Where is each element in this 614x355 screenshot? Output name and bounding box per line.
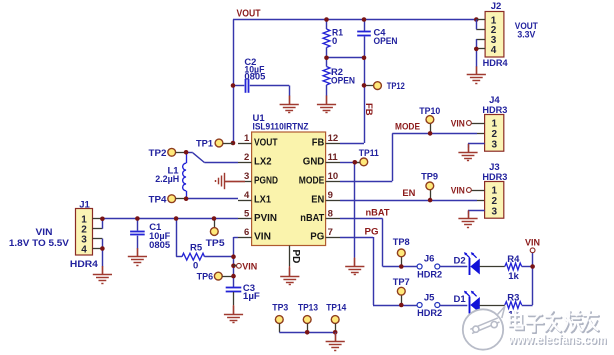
svg-text:J2: J2 [491,1,502,12]
svg-text:EN: EN [402,188,415,199]
svg-text:9: 9 [328,190,333,201]
svg-text:LX2: LX2 [254,156,272,167]
svg-text:D2: D2 [454,256,466,267]
svg-text:6: 6 [244,227,249,238]
svg-text:J6: J6 [424,254,435,265]
svg-text:4: 4 [81,244,87,255]
svg-text:TP13: TP13 [298,303,318,314]
svg-text:PG: PG [310,231,324,242]
svg-text:3: 3 [244,171,249,182]
svg-text:TP10: TP10 [419,106,440,117]
svg-text:1: 1 [492,119,498,130]
svg-text:HDR2: HDR2 [417,270,442,281]
svg-text:HDR4: HDR4 [483,58,509,69]
svg-text:PG: PG [365,226,379,237]
svg-text:VIN: VIN [254,231,271,242]
svg-text:VOUT: VOUT [237,8,261,19]
svg-text:EN: EN [311,194,324,205]
svg-text:LX1: LX1 [254,194,271,205]
svg-text:1: 1 [492,186,498,197]
svg-text:0: 0 [332,36,337,47]
svg-text:4: 4 [244,190,250,201]
svg-text:VIN: VIN [36,227,53,238]
svg-text:TP1: TP1 [196,139,214,150]
svg-text:0805: 0805 [149,240,170,250]
svg-text:TP4: TP4 [149,194,168,205]
svg-text:OPEN: OPEN [331,75,355,86]
svg-text:R4: R4 [507,254,520,265]
svg-text:12: 12 [328,133,339,144]
svg-text:MODE: MODE [299,175,325,186]
svg-text:HDR3: HDR3 [482,172,507,183]
svg-text:OPEN: OPEN [374,36,398,47]
svg-text:PVIN: PVIN [254,213,277,224]
svg-text:VIN: VIN [242,261,257,272]
svg-text:HDR2: HDR2 [417,308,442,319]
svg-text:2: 2 [244,152,249,163]
svg-text:3.3V: 3.3V [517,30,536,41]
svg-text:VOUT: VOUT [254,137,278,148]
svg-text:R5: R5 [190,242,203,253]
svg-text:1.8V TO 5.5V: 1.8V TO 5.5V [9,238,69,248]
svg-text:TP6: TP6 [197,272,214,283]
svg-text:D1: D1 [454,294,467,305]
svg-text:VIN: VIN [451,185,465,196]
svg-text:10: 10 [328,171,339,182]
svg-text:nBAT: nBAT [300,213,324,224]
svg-text:www.elecfans.com: www.elecfans.com [508,332,607,347]
svg-text:0805: 0805 [244,72,265,82]
svg-text:TP14: TP14 [326,303,347,314]
svg-text:ISL9110IRTNZ: ISL9110IRTNZ [253,121,309,131]
svg-text:TP8: TP8 [393,237,410,248]
svg-text:TP2: TP2 [149,148,167,159]
svg-text:3: 3 [492,139,498,150]
svg-text:HDR3: HDR3 [482,105,507,116]
svg-text:TP3: TP3 [272,303,288,314]
svg-text:FB: FB [363,103,374,116]
svg-text:11: 11 [328,152,339,163]
svg-text:0: 0 [193,261,198,272]
svg-text:VIN: VIN [451,118,465,129]
svg-text:1k: 1k [508,271,519,282]
svg-text:2.2µH: 2.2µH [155,174,179,185]
svg-text:R3: R3 [507,293,519,304]
svg-text:4: 4 [491,45,497,56]
svg-text:VIN: VIN [525,237,540,248]
svg-text:PD: PD [290,250,301,264]
svg-text:nBAT: nBAT [366,208,390,219]
svg-text:GND: GND [303,156,325,167]
svg-text:MODE: MODE [395,121,420,132]
svg-text:TP11: TP11 [359,148,380,159]
svg-text:3: 3 [492,206,498,217]
svg-text:TP5: TP5 [206,238,226,249]
svg-text:7: 7 [328,227,333,238]
svg-text:J5: J5 [424,292,435,303]
svg-text:1µF: 1µF [243,291,260,302]
svg-text:TP9: TP9 [421,171,438,182]
svg-text:TP7: TP7 [393,277,410,288]
svg-text:1: 1 [244,133,250,144]
svg-text:PGND: PGND [254,175,278,186]
svg-text:J1: J1 [79,200,90,211]
svg-text:HDR4: HDR4 [70,259,99,270]
svg-text:TP12: TP12 [387,81,405,92]
svg-text:FB: FB [312,137,325,148]
